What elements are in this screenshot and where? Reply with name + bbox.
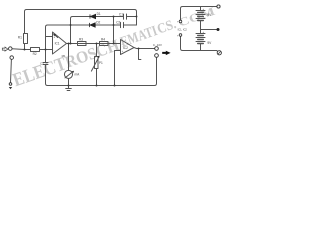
svg-text:D1: D1 [97, 12, 101, 16]
svg-text:P1: P1 [99, 61, 103, 65]
svg-text:C1: C1 [119, 13, 123, 17]
svg-text:-: - [54, 48, 55, 52]
svg-text:R2: R2 [33, 52, 37, 56]
svg-text:C3: C3 [40, 61, 44, 65]
svg-text:R4: R4 [101, 38, 105, 42]
svg-text:IC1, IC2: IC1, IC2 [178, 28, 188, 31]
svg-text:IC2: IC2 [123, 46, 128, 50]
svg-text:R1: R1 [18, 36, 22, 40]
svg-text:D2: D2 [96, 20, 100, 24]
svg-text:0...10V: 0...10V [153, 43, 162, 47]
svg-text:-: - [122, 42, 123, 46]
svg-text:C2: C2 [116, 21, 120, 25]
svg-text:IC1: IC1 [55, 41, 60, 45]
svg-text:M1: M1 [62, 54, 66, 58]
svg-text:R3: R3 [79, 38, 83, 42]
